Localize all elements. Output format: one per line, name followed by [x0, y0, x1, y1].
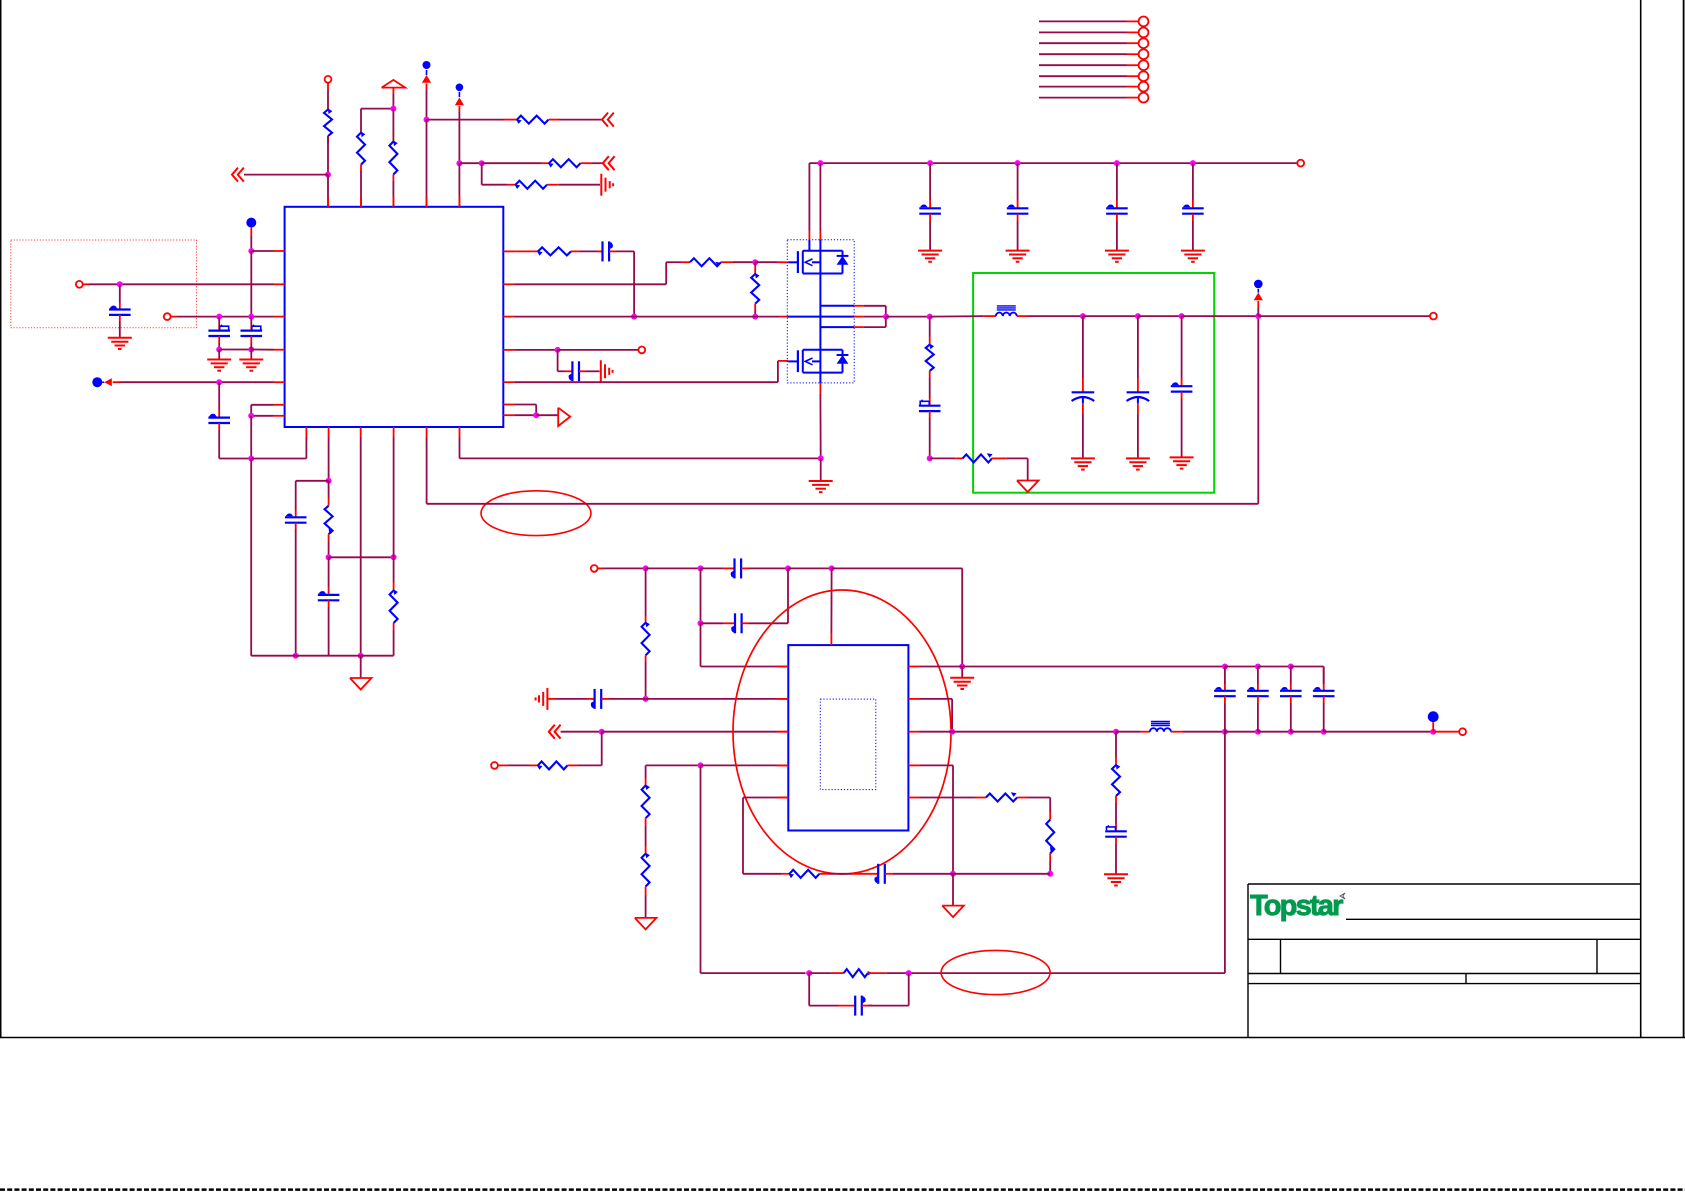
junction — [950, 871, 956, 877]
resistor R18 — [1112, 764, 1120, 803]
wire — [701, 567, 735, 569]
junction — [1135, 313, 1141, 319]
capacitor C15 — [1171, 382, 1193, 391]
wire — [741, 567, 788, 569]
ground — [1170, 457, 1194, 468]
connector pin circle 4 — [1139, 49, 1149, 59]
ground — [1071, 458, 1095, 469]
junction — [599, 729, 605, 735]
IC U2 — [788, 645, 908, 830]
wire — [514, 361, 788, 382]
wire — [113, 381, 274, 383]
junction — [216, 314, 222, 320]
junction — [817, 160, 823, 166]
junction — [358, 653, 364, 659]
net ellipse 1 — [481, 491, 591, 536]
connector pin circle 1 — [1139, 17, 1149, 27]
pin — [458, 197, 460, 207]
ground (rotated) — [536, 688, 548, 710]
resistor R8 — [390, 589, 398, 630]
wire — [1257, 667, 1259, 691]
power arrow — [455, 98, 464, 106]
connector pin circle 3 — [1139, 38, 1149, 48]
svg-text:Topstar: Topstar — [1250, 890, 1343, 922]
wire — [602, 731, 789, 733]
pin — [274, 250, 285, 252]
wire — [328, 600, 330, 655]
pin — [503, 316, 514, 318]
port circle P8 — [491, 762, 498, 769]
wire — [920, 666, 963, 668]
junction — [927, 314, 933, 320]
wire — [920, 765, 954, 873]
wire — [1138, 315, 1182, 317]
wire — [558, 350, 573, 371]
junction — [424, 117, 430, 123]
junction — [818, 455, 824, 461]
junction — [1255, 729, 1261, 735]
junction — [533, 412, 539, 418]
wire — [1028, 798, 1051, 820]
port circle P7 — [591, 565, 598, 572]
pin — [777, 797, 788, 799]
junction — [1222, 664, 1228, 670]
junction — [1114, 160, 1120, 166]
junction — [248, 413, 254, 419]
wire — [929, 163, 931, 208]
junction — [1255, 664, 1261, 670]
wire — [645, 765, 647, 785]
wire — [1323, 696, 1325, 732]
wire — [579, 370, 600, 372]
wire — [1137, 403, 1139, 458]
ground — [1126, 458, 1150, 469]
resistor R6 — [514, 181, 559, 189]
wire — [1082, 403, 1084, 458]
connector pin wire 3 — [1039, 42, 1138, 44]
junction — [643, 565, 649, 571]
wire — [558, 349, 639, 351]
ground — [950, 667, 974, 690]
capacitor C16 — [731, 558, 741, 578]
wire — [1225, 666, 1258, 668]
junction — [1015, 160, 1021, 166]
junction — [216, 379, 222, 385]
wire — [392, 181, 394, 207]
junction — [883, 314, 889, 320]
Topstar logo — [1250, 890, 1345, 922]
port circle P2 — [76, 281, 83, 288]
wire — [920, 699, 953, 732]
wire — [952, 874, 954, 906]
wire — [580, 250, 603, 252]
junction — [117, 281, 123, 287]
wire — [360, 437, 362, 656]
pin — [908, 666, 919, 668]
mosfet pair dotted box — [787, 240, 854, 383]
capacitor C8 — [919, 204, 941, 213]
wire — [119, 315, 121, 338]
wire — [327, 83, 329, 110]
IC U1 — [285, 207, 504, 427]
wire — [1116, 163, 1118, 208]
pin — [392, 197, 394, 207]
resistor R11 — [751, 273, 759, 311]
port circle P9 — [1459, 728, 1466, 735]
junction — [479, 160, 485, 166]
junction — [326, 478, 332, 484]
wire — [251, 250, 273, 252]
wire — [598, 567, 646, 569]
sheet-port chevron C — [603, 156, 615, 170]
wire — [743, 873, 789, 875]
capacitor C23 — [1105, 825, 1127, 836]
wire — [514, 250, 538, 252]
resistor R19 — [986, 792, 1028, 801]
junction — [391, 554, 397, 560]
resistor R17 — [642, 853, 650, 896]
junction — [1190, 160, 1196, 166]
wire — [733, 261, 755, 263]
pin — [274, 404, 285, 406]
sheet border outer right edge — [1683, 0, 1685, 1038]
connector pin circle 7 — [1139, 82, 1149, 92]
net ellipse 2 — [941, 950, 1050, 994]
junction — [456, 160, 462, 166]
wire — [701, 764, 789, 766]
junction — [643, 696, 649, 702]
pin — [503, 349, 514, 351]
power dot VBAT — [246, 218, 256, 228]
ground (rotated) — [601, 174, 613, 196]
resistor R10 — [690, 258, 733, 266]
capacitor C18 — [591, 689, 601, 709]
junction — [216, 347, 222, 353]
wire — [885, 873, 953, 875]
sheet-port chevron B — [602, 113, 614, 127]
capacitor C13 — [1072, 392, 1095, 403]
capacitor C7 — [569, 361, 579, 381]
wire — [514, 349, 557, 351]
power dot 5V — [1428, 711, 1439, 722]
wire — [482, 163, 516, 185]
pin — [274, 349, 285, 351]
resistor R3 — [389, 140, 397, 181]
capacitor C26 — [318, 591, 340, 600]
capacitor C24 — [874, 864, 884, 884]
wire — [646, 698, 789, 700]
wire — [360, 656, 362, 678]
wire — [701, 765, 810, 973]
wire — [250, 416, 252, 459]
connector pin wire 8 — [1039, 97, 1138, 99]
wire — [482, 162, 549, 164]
wire — [426, 83, 428, 119]
resistor R9 — [537, 247, 580, 255]
wire — [645, 826, 647, 854]
wire — [920, 797, 986, 799]
pin — [908, 698, 919, 700]
wire — [561, 731, 602, 733]
wire — [1182, 315, 1259, 317]
pin — [908, 797, 919, 799]
wire — [887, 972, 909, 974]
wire — [755, 261, 788, 263]
wire — [832, 568, 963, 666]
sheet border inner right edge — [1640, 0, 1642, 1038]
junction — [698, 620, 704, 626]
wire — [296, 481, 329, 518]
wire — [427, 119, 518, 121]
connector pin wire 2 — [1039, 31, 1138, 33]
pin — [459, 427, 461, 437]
wire — [820, 458, 822, 481]
wire — [830, 568, 832, 633]
port circle P3 — [164, 313, 171, 320]
junction — [829, 565, 835, 571]
capacitor C3 — [241, 317, 263, 336]
junction — [1179, 313, 1185, 319]
connector pin wire 6 — [1039, 75, 1138, 77]
pin — [908, 764, 919, 766]
wire — [1291, 667, 1324, 685]
wire — [1181, 316, 1183, 386]
junction — [631, 314, 637, 320]
ground — [1006, 251, 1030, 262]
pin — [777, 698, 788, 700]
connector pin circle 8 — [1139, 93, 1149, 103]
pin — [328, 427, 330, 437]
junction — [1255, 313, 1261, 319]
capacitor C5 — [285, 513, 307, 522]
wire — [820, 317, 885, 328]
resistor R15 — [537, 761, 578, 769]
wire — [327, 175, 329, 207]
wire — [1116, 731, 1150, 733]
wire — [1017, 214, 1019, 251]
wire — [930, 315, 996, 318]
junction — [1113, 729, 1119, 735]
wire — [1290, 696, 1292, 732]
wire — [559, 119, 602, 121]
wire — [1083, 315, 1138, 317]
pin — [274, 381, 285, 383]
wire — [1181, 392, 1183, 458]
wire — [701, 622, 736, 624]
wire — [458, 163, 460, 207]
wire — [1433, 731, 1459, 733]
wire — [645, 895, 647, 918]
wire — [218, 382, 220, 417]
wire — [219, 423, 251, 459]
wire — [754, 311, 756, 317]
pin — [777, 731, 788, 733]
wire — [328, 481, 330, 506]
capacitor C1 — [109, 306, 131, 315]
wire — [328, 541, 330, 557]
inductor L1 — [996, 306, 1017, 316]
wire — [548, 698, 594, 700]
wire — [930, 457, 963, 459]
wire — [1258, 666, 1291, 668]
wire — [536, 414, 558, 416]
wire — [1257, 696, 1259, 732]
wire — [426, 437, 428, 504]
resistor R12 — [926, 343, 934, 378]
sheet border left edge — [0, 0, 2, 1038]
wire — [645, 568, 647, 622]
wire — [742, 568, 788, 623]
wire — [645, 662, 647, 699]
capacitor C20 — [1247, 687, 1269, 696]
resistor R16 — [642, 784, 650, 826]
power ground triangle — [1017, 481, 1039, 493]
wire — [514, 414, 536, 416]
Q1 source chain — [819, 274, 821, 350]
wire — [1324, 731, 1434, 733]
pin — [426, 197, 428, 207]
wire — [1192, 214, 1194, 251]
pin — [327, 197, 329, 207]
wire — [328, 557, 330, 595]
wire — [1257, 301, 1259, 316]
wire — [1432, 722, 1434, 732]
title block — [1248, 884, 1641, 1038]
pin — [360, 427, 362, 437]
wire — [219, 349, 251, 351]
capacitor C9 — [1007, 204, 1029, 213]
wire — [1258, 731, 1291, 733]
power arrow left — [104, 378, 112, 386]
wire — [929, 317, 931, 345]
ground — [918, 251, 942, 262]
wire — [244, 174, 328, 176]
wire — [83, 283, 274, 285]
output filter green box — [973, 273, 1214, 493]
wire — [393, 437, 395, 557]
wire — [953, 873, 1050, 875]
wire — [251, 437, 306, 459]
connector pin wire 5 — [1039, 64, 1138, 66]
transistor Q2 — [788, 350, 848, 373]
wire — [1115, 837, 1117, 875]
ground — [809, 481, 833, 492]
wire — [809, 972, 844, 974]
power ground triangle — [942, 906, 964, 918]
wire — [609, 251, 634, 316]
pin — [503, 404, 514, 406]
resistor R2 — [357, 131, 365, 171]
sheet-port chevron A — [232, 168, 244, 182]
junction — [1288, 664, 1294, 670]
port circle P6 — [1430, 313, 1437, 320]
resistor R7 — [325, 506, 333, 541]
wire — [646, 764, 701, 766]
connector pin wire 1 — [1039, 20, 1138, 22]
junction — [248, 248, 254, 254]
wire — [328, 437, 330, 481]
junction — [785, 565, 791, 571]
pin — [808, 231, 810, 251]
junction — [927, 455, 933, 461]
wire — [1115, 732, 1117, 765]
resistor R22 — [844, 969, 887, 977]
wire — [809, 973, 855, 1006]
wire — [1257, 316, 1259, 504]
junction — [293, 653, 299, 659]
power dot VDD1 — [423, 61, 431, 75]
wire — [498, 764, 538, 766]
capacitor C11 — [1182, 204, 1204, 213]
wire — [1291, 731, 1324, 733]
phase inner wire — [787, 316, 886, 318]
pin — [305, 427, 307, 437]
wire — [459, 162, 481, 164]
wire — [808, 163, 810, 230]
wire — [250, 459, 252, 656]
junction — [959, 664, 965, 670]
wire — [1116, 214, 1118, 251]
sheet border bottom edge — [0, 1037, 1685, 1039]
pin — [393, 427, 395, 437]
wire — [458, 106, 460, 163]
wire — [119, 284, 121, 309]
junction — [248, 347, 254, 353]
wire — [1171, 731, 1225, 733]
resistor R20 — [1046, 820, 1054, 861]
wire — [1049, 861, 1051, 874]
bottom dashed cut line — [0, 1188, 1685, 1191]
pin — [908, 731, 919, 733]
ground (rotated) — [601, 360, 613, 382]
wire — [327, 136, 329, 175]
wire — [743, 798, 788, 874]
resistor R4 — [516, 116, 559, 124]
wire — [1137, 316, 1139, 392]
pin — [360, 197, 362, 207]
junction — [698, 762, 704, 768]
off-page triangle — [558, 408, 570, 426]
junction — [1047, 871, 1053, 877]
junction — [927, 160, 933, 166]
wire — [559, 184, 600, 186]
pin — [503, 283, 514, 285]
power arrow — [1254, 293, 1263, 301]
wire — [460, 437, 821, 458]
wire — [251, 405, 273, 416]
pin — [503, 414, 514, 416]
resistor R14 — [642, 622, 650, 663]
wire — [701, 623, 789, 666]
wire — [1258, 315, 1430, 317]
wire — [886, 316, 930, 318]
pin — [830, 633, 832, 645]
pin — [819, 231, 821, 251]
wire — [1007, 458, 1028, 480]
wire — [250, 228, 252, 251]
junction — [326, 554, 332, 560]
capacitor C6 — [603, 241, 613, 261]
wire — [251, 415, 273, 417]
resistor R5 — [548, 159, 592, 167]
power ground triangle — [350, 678, 372, 690]
wire — [1082, 316, 1084, 392]
power arrow — [422, 75, 431, 83]
capacitor C2 — [208, 317, 230, 336]
hook-up dotted box — [11, 240, 197, 328]
ground — [239, 350, 263, 371]
wire — [929, 411, 931, 458]
